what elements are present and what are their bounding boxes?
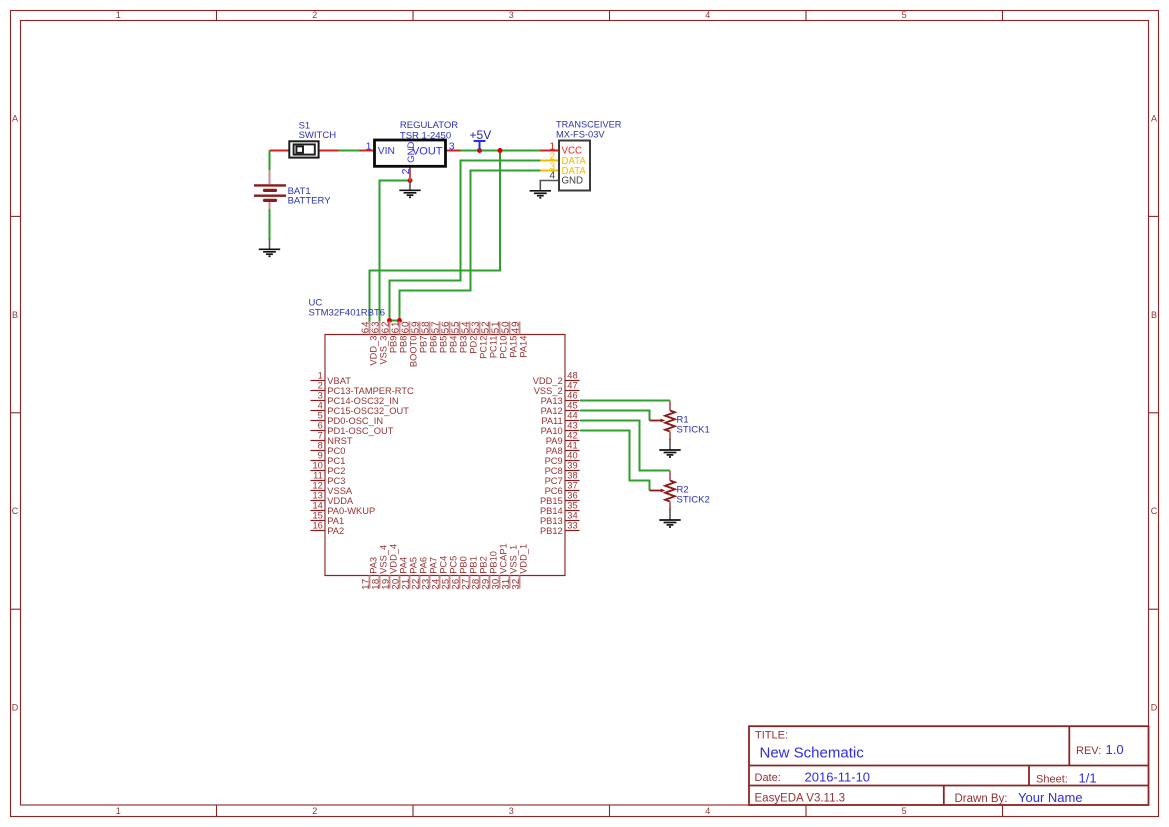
svg-text:PC14-OSC32_IN: PC14-OSC32_IN — [327, 396, 398, 406]
svg-text:GND: GND — [562, 175, 584, 186]
ground stub regulator — [409, 181, 411, 190]
svg-text:PC4: PC4 — [438, 556, 448, 574]
UC pin 53 PC12 (top) — [471, 321, 489, 359]
UC pin 15 PA1 (left) — [311, 510, 345, 526]
UC pin 7 NRST (left) — [311, 430, 353, 446]
svg-text:PD2: PD2 — [468, 336, 478, 354]
svg-text:PC1: PC1 — [327, 456, 345, 466]
svg-text:PC10: PC10 — [498, 336, 508, 359]
svg-text:14: 14 — [312, 500, 322, 510]
UC pin 3 PC14-OSC32_IN (left) — [311, 390, 399, 406]
svg-text:B: B — [1151, 310, 1157, 320]
svg-text:48: 48 — [567, 370, 577, 380]
UC pin 25 PC5 (bottom) — [441, 556, 459, 590]
UC pin 41 PA8 (right) — [546, 440, 580, 456]
svg-text:VDD_4: VDD_4 — [388, 544, 398, 574]
resistor R2 zigzag — [665, 481, 675, 502]
wire PA12 to R1 wiper — [580, 411, 650, 421]
UC pin 36 PB15 (right) — [540, 490, 580, 506]
ground battery — [259, 249, 280, 256]
svg-text:A: A — [12, 113, 18, 123]
UC pin 48 VDD_2 (right) — [533, 370, 580, 386]
svg-text:34: 34 — [567, 510, 577, 520]
UC pin 38 PC7 (right) — [545, 470, 580, 486]
svg-text:VSS_3: VSS_3 — [378, 336, 388, 365]
junction dot +5V rail — [498, 148, 503, 153]
svg-text:PB3: PB3 — [458, 336, 468, 354]
svg-text:VDD_1: VDD_1 — [518, 544, 528, 574]
UC pin 30 VCAP1 (bottom) — [491, 543, 509, 590]
svg-text:15: 15 — [312, 510, 322, 520]
UC pin 33 PB12 (right) — [540, 520, 580, 536]
wire jumper PB9-PB8 — [390, 320, 400, 322]
svg-text:1: 1 — [116, 806, 121, 816]
svg-text:B: B — [12, 310, 18, 320]
svg-text:NRST: NRST — [327, 436, 353, 446]
UC pin 39 PC8 (right) — [545, 460, 580, 476]
wire +5V rail VOUT to VCC — [461, 150, 541, 152]
svg-text:2: 2 — [312, 10, 317, 20]
svg-text:PB6: PB6 — [428, 336, 438, 354]
UC pin 14 PA0-WKUP (left) — [311, 500, 376, 516]
UC pin 32 VDD_1 (bottom) — [511, 544, 529, 590]
svg-text:PC11: PC11 — [488, 336, 498, 359]
svg-text:47: 47 — [567, 380, 577, 390]
UC pin 22 PA6 (bottom) — [411, 557, 429, 590]
UC pin 64 VDD_3 (top) — [361, 321, 379, 366]
title block Sheet divider — [1028, 766, 1030, 786]
UC pin 31 VSS_1 (bottom) — [501, 545, 519, 590]
svg-text:C: C — [12, 506, 19, 516]
svg-text:41: 41 — [567, 440, 577, 450]
UC pin 44 PA11 (right) — [541, 410, 579, 426]
svg-text:Drawn By:: Drawn By: — [955, 793, 1008, 805]
wire regulator GND to UC pin 63 VSS_3 — [380, 181, 411, 322]
resistor R2 wiper — [650, 490, 662, 492]
resistor R1 bottom pin — [669, 432, 671, 441]
UC pin 52 PC11 (top) — [481, 321, 499, 359]
UC pin 9 PC1 (left) — [311, 450, 346, 466]
svg-text:VOUT: VOUT — [412, 145, 443, 157]
svg-text:PA0-WKUP: PA0-WKUP — [327, 506, 375, 516]
svg-text:2: 2 — [318, 380, 323, 390]
svg-text:2: 2 — [400, 168, 412, 174]
svg-text:5: 5 — [902, 10, 907, 20]
junction dot PB9 pin — [387, 318, 392, 323]
svg-text:STM32F401RBT6: STM32F401RBT6 — [309, 308, 386, 319]
junction dot regulator GND — [408, 178, 413, 183]
wire PA10 to R2 wiper — [580, 431, 650, 491]
svg-text:PD1-OSC_OUT: PD1-OSC_OUT — [327, 426, 393, 436]
UC pin 21 PA5 (bottom) — [401, 557, 419, 590]
ground R1 — [659, 450, 680, 457]
svg-text:MX-FS-03V: MX-FS-03V — [556, 130, 605, 140]
UC pin 2 PC13-TAMPER-RTC (left) — [311, 380, 415, 396]
svg-text:7: 7 — [318, 430, 323, 440]
UC body — [325, 335, 566, 576]
svg-text:35: 35 — [567, 500, 577, 510]
net flag +5V — [474, 141, 486, 149]
regulator pin 1 — [360, 150, 375, 152]
UC pin 34 PB13 (right) — [540, 510, 580, 526]
switch S1 body — [289, 141, 318, 157]
svg-text:1: 1 — [366, 140, 372, 152]
svg-text:SWITCH: SWITCH — [299, 130, 337, 141]
svg-text:49: 49 — [511, 321, 522, 334]
wire PA11 to R2 top — [580, 421, 670, 471]
svg-text:PB9: PB9 — [388, 336, 398, 354]
svg-text:36: 36 — [567, 490, 577, 500]
ground stub R2 — [669, 509, 671, 520]
UC pin 45 PA12 (right) — [541, 400, 580, 416]
wire switch to regulator VIN — [339, 150, 360, 152]
UC pin 16 PA2 (left) — [311, 520, 345, 536]
svg-text:6: 6 — [318, 420, 323, 430]
ruler ticks bottom band — [216, 805, 218, 817]
svg-text:PA10: PA10 — [541, 426, 563, 436]
wire DATA pin3 to UC pin 61 PB8 — [400, 171, 541, 322]
UC pin 5 PD0-OSC_IN (left) — [311, 410, 384, 426]
UC pin 60 BOOT0 (top) — [401, 321, 419, 367]
svg-text:VCAP1: VCAP1 — [498, 543, 508, 574]
svg-text:4: 4 — [549, 171, 555, 182]
svg-text:PC7: PC7 — [545, 476, 563, 486]
svg-text:D: D — [1151, 703, 1158, 713]
svg-text:PA2: PA2 — [327, 526, 344, 536]
svg-text:VSS_1: VSS_1 — [508, 545, 518, 574]
svg-text:PA8: PA8 — [546, 446, 563, 456]
svg-text:12: 12 — [312, 480, 322, 490]
title block row line 2 — [749, 785, 1149, 787]
svg-text:PB14: PB14 — [540, 506, 563, 516]
svg-text:PC6: PC6 — [545, 486, 563, 496]
svg-text:TRANSCEIVER: TRANSCEIVER — [556, 120, 622, 130]
UC pin 13 VDDA (left) — [311, 490, 354, 506]
svg-text:PB8: PB8 — [398, 336, 408, 354]
ground R2 — [659, 520, 680, 527]
svg-text:PC5: PC5 — [448, 556, 458, 574]
svg-text:PA11: PA11 — [541, 416, 562, 426]
UC pin 24 PC4 (bottom) — [431, 556, 449, 590]
svg-text:PB7: PB7 — [418, 336, 428, 354]
svg-text:TITLE:: TITLE: — [755, 730, 788, 742]
svg-text:PA6: PA6 — [418, 557, 428, 574]
ruler ticks left band — [11, 215, 21, 217]
wire PA13 to R1 top — [580, 400, 670, 402]
ground stub R1 — [669, 439, 671, 450]
svg-text:PA4: PA4 — [398, 557, 408, 574]
svg-text:10: 10 — [312, 460, 322, 470]
svg-text:37: 37 — [567, 480, 577, 490]
svg-text:1: 1 — [318, 370, 323, 380]
svg-text:BATTERY: BATTERY — [288, 195, 332, 206]
transceiver pin 3 — [540, 170, 559, 172]
UC pin 63 VSS_3 (top) — [371, 321, 389, 365]
regulator pin 3 — [446, 150, 461, 152]
svg-text:PA1: PA1 — [327, 516, 344, 526]
UC pin 46 PA13 (right) — [541, 390, 580, 406]
title block outline — [749, 726, 1149, 805]
svg-text:New Schematic: New Schematic — [760, 744, 865, 761]
svg-text:32: 32 — [511, 578, 522, 589]
UC pin 28 PB2 (bottom) — [471, 556, 489, 590]
svg-text:PA13: PA13 — [541, 396, 563, 406]
svg-text:PC2: PC2 — [327, 466, 345, 476]
svg-text:9: 9 — [318, 450, 323, 460]
svg-text:PB15: PB15 — [540, 496, 563, 506]
junction dot PB8 pin — [397, 318, 402, 323]
svg-text:STICK2: STICK2 — [677, 494, 710, 505]
svg-text:VBAT: VBAT — [327, 376, 351, 386]
regulator pin 2 — [409, 167, 411, 181]
UC pin 27 PB1 (bottom) — [461, 556, 479, 590]
svg-text:VSS_4: VSS_4 — [378, 545, 388, 574]
svg-text:PB2: PB2 — [478, 556, 488, 574]
svg-text:D: D — [12, 703, 19, 713]
UC pin 47 VSS_2 (right) — [534, 380, 580, 396]
UC pin 12 VSSA (left) — [311, 480, 353, 496]
svg-text:EasyEDA V3.11.3: EasyEDA V3.11.3 — [755, 793, 846, 805]
UC pin 62 PB9 (top) — [381, 321, 399, 354]
svg-text:33: 33 — [567, 520, 577, 530]
ruler ticks top band — [216, 11, 218, 21]
svg-text:PC9: PC9 — [545, 456, 563, 466]
title block REV divider — [1068, 726, 1070, 765]
svg-text:Your Name: Your Name — [1018, 790, 1083, 805]
UC pin 10 PC2 (left) — [311, 460, 346, 476]
resistor R1 zigzag — [665, 411, 675, 432]
svg-text:VSSA: VSSA — [327, 486, 353, 496]
svg-text:13: 13 — [312, 490, 322, 500]
svg-text:3: 3 — [449, 140, 455, 152]
UC pin 57 PB5 (top) — [431, 321, 449, 354]
svg-text:3: 3 — [509, 806, 514, 816]
UC pin 49 PA14 (top) — [511, 321, 529, 358]
UC pin 1 VBAT (left) — [311, 370, 352, 386]
UC pin 43 PA10 (right) — [541, 420, 580, 436]
svg-text:Date:: Date: — [755, 772, 781, 784]
wire battery- to ground net — [269, 209, 271, 240]
svg-text:4: 4 — [705, 806, 710, 816]
UC pin 59 PB7 (top) — [411, 321, 429, 354]
svg-text:PB5: PB5 — [438, 336, 448, 354]
svg-text:VDD_3: VDD_3 — [368, 336, 378, 366]
UC pin 29 PB10 (bottom) — [481, 551, 499, 590]
svg-text:42: 42 — [567, 430, 577, 440]
svg-text:43: 43 — [567, 420, 577, 430]
svg-text:PC3: PC3 — [327, 476, 345, 486]
svg-text:PB4: PB4 — [448, 336, 458, 354]
svg-text:A: A — [1151, 113, 1157, 123]
transceiver pin 2 — [540, 160, 559, 162]
junction dot +5V flag — [477, 148, 482, 153]
UC pin 6 PD1-OSC_OUT (left) — [311, 420, 394, 436]
svg-text:PA5: PA5 — [408, 557, 418, 574]
UC pin 26 PB0 (bottom) — [451, 556, 469, 590]
svg-text:8: 8 — [318, 440, 323, 450]
resistor R1 wiper — [650, 420, 662, 422]
UC pin 20 PA4 (bottom) — [391, 557, 409, 590]
svg-text:PC0: PC0 — [327, 446, 345, 456]
resistor R2 bottom pin — [669, 502, 671, 511]
UC pin 4 PC15-OSC32_OUT (left) — [311, 400, 410, 416]
svg-text:1: 1 — [116, 10, 121, 20]
svg-text:5: 5 — [902, 806, 907, 816]
svg-text:VIN: VIN — [378, 146, 395, 157]
svg-text:VSS_2: VSS_2 — [534, 386, 563, 396]
ground stub battery — [269, 239, 271, 249]
svg-text:44: 44 — [567, 410, 577, 420]
battery BAT1 plates — [254, 185, 286, 200]
svg-text:46: 46 — [567, 390, 577, 400]
svg-text:PB13: PB13 — [540, 516, 563, 526]
wire battery+ to switch net — [269, 151, 271, 171]
svg-text:BOOT0: BOOT0 — [408, 336, 418, 368]
svg-text:3: 3 — [318, 390, 323, 400]
UC pin 58 PB6 (top) — [421, 321, 439, 354]
svg-text:11: 11 — [313, 470, 323, 480]
UC pin 19 VDD_4 (bottom) — [381, 544, 399, 590]
svg-text:2016-11-10: 2016-11-10 — [805, 769, 871, 784]
svg-text:VDD_2: VDD_2 — [533, 376, 563, 386]
resistor R2 top pin — [669, 471, 671, 481]
svg-text:4: 4 — [318, 400, 323, 410]
svg-text:C: C — [1151, 506, 1158, 516]
svg-text:PA3: PA3 — [368, 557, 378, 574]
UC pin 11 PC3 (left) — [311, 470, 346, 486]
title block DrawnBy divider — [943, 786, 945, 806]
svg-text:PB10: PB10 — [488, 551, 498, 574]
battery BAT1 bottom pin — [269, 201, 271, 209]
wire DATA pin2 to UC pin 62 PB9 — [390, 161, 541, 322]
transceiver body — [559, 141, 590, 191]
svg-text:PC15-OSC32_OUT: PC15-OSC32_OUT — [327, 406, 409, 416]
svg-text:VCC: VCC — [562, 146, 582, 157]
svg-text:VDDA: VDDA — [327, 496, 354, 506]
svg-text:REV:: REV: — [1076, 745, 1101, 757]
svg-text:16: 16 — [312, 520, 322, 530]
svg-text:PD0-OSC_IN: PD0-OSC_IN — [327, 416, 383, 426]
UC pin 18 VSS_4 (bottom) — [371, 545, 389, 590]
battery BAT1 top pin — [269, 170, 271, 184]
svg-text:39: 39 — [567, 460, 577, 470]
UC pin 42 PA9 (right) — [546, 430, 580, 446]
resistor R1 top pin — [669, 401, 671, 411]
svg-text:PA15: PA15 — [508, 336, 518, 358]
UC pin 61 PB8 (top) — [391, 321, 409, 354]
switch S1 left pin — [270, 150, 290, 152]
UC pin 35 PB14 (right) — [540, 500, 580, 516]
svg-text:+5V: +5V — [470, 128, 492, 142]
svg-text:38: 38 — [567, 470, 577, 480]
UC pin 23 PA7 (bottom) — [421, 557, 439, 590]
svg-text:PC13-TAMPER-RTC: PC13-TAMPER-RTC — [327, 386, 414, 396]
svg-text:PC12: PC12 — [478, 336, 488, 359]
UC pin 40 PC9 (right) — [545, 450, 580, 466]
UC pin 55 PB3 (top) — [451, 321, 469, 354]
svg-text:PA9: PA9 — [546, 436, 563, 446]
regulator body — [375, 140, 446, 166]
svg-text:1/1: 1/1 — [1079, 771, 1097, 786]
svg-text:PC8: PC8 — [545, 466, 563, 476]
UC pin 56 PB4 (top) — [441, 321, 459, 354]
svg-text:PA14: PA14 — [518, 336, 528, 358]
UC pin 17 PA3 (bottom) — [361, 557, 379, 590]
ground transceiver — [530, 191, 551, 198]
UC pin 51 PC10 (top) — [491, 321, 509, 359]
svg-text:PA7: PA7 — [428, 557, 438, 574]
UC pin 54 PD2 (top) — [461, 321, 479, 354]
svg-text:4: 4 — [705, 10, 710, 20]
svg-text:5: 5 — [318, 410, 323, 420]
UC pin 50 PA15 (top) — [501, 321, 519, 358]
title block row line 1 — [749, 765, 1149, 767]
svg-text:3: 3 — [509, 10, 514, 20]
UC pin 8 PC0 (left) — [311, 440, 346, 456]
transceiver pin 4 wire to ground — [540, 181, 559, 191]
svg-text:40: 40 — [567, 450, 577, 460]
svg-text:PB12: PB12 — [540, 526, 563, 536]
svg-text:45: 45 — [567, 400, 577, 410]
UC pin 37 PC6 (right) — [545, 480, 580, 496]
svg-text:PA12: PA12 — [541, 406, 563, 416]
wire +5V to UC pin 64 VDD_3 — [370, 151, 501, 322]
svg-text:TSR 1-2450: TSR 1-2450 — [400, 130, 451, 141]
svg-text:1.0: 1.0 — [1106, 742, 1124, 757]
ruler ticks right band — [1149, 215, 1159, 217]
transceiver pin 1 — [540, 150, 559, 152]
svg-text:PB1: PB1 — [468, 556, 478, 574]
ground regulator — [399, 190, 420, 197]
switch S1 right pin — [319, 150, 339, 152]
svg-text:2: 2 — [312, 806, 317, 816]
svg-text:PB0: PB0 — [458, 556, 468, 574]
svg-text:Sheet:: Sheet: — [1036, 773, 1068, 785]
svg-text:STICK1: STICK1 — [677, 424, 710, 435]
